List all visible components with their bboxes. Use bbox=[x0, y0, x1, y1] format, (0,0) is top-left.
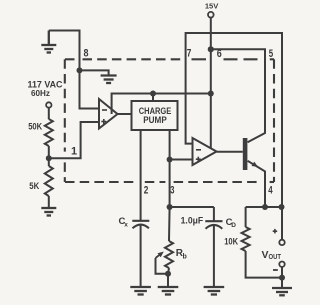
node 15V junction dot bbox=[208, 46, 214, 52]
wire: top-left ground to pin 8 node, down to op-amp inverting input bbox=[49, 31, 99, 109]
node pin 8 junction dot bbox=[77, 67, 83, 73]
wire: outer supply rail and comparator U2 inverting input bbox=[186, 33, 282, 207]
wire: node to ground bbox=[281, 278, 283, 288]
ground (near pin 8) bbox=[101, 76, 117, 84]
node charge-pump top junction dot bbox=[150, 91, 156, 97]
charge pump block bbox=[132, 101, 178, 130]
capacitor Cx bbox=[132, 220, 149, 222]
wire: 5K to ground bbox=[48, 196, 50, 208]
node pin 6 rail junction dot bbox=[208, 91, 214, 97]
svg-text:5: 5 bbox=[269, 48, 273, 60]
svg-text:5K: 5K bbox=[29, 181, 39, 192]
svg-text:7: 7 bbox=[187, 47, 192, 59]
wire: charge pump left lead down to Cx (pin 2) bbox=[140, 130, 142, 220]
node Rb bottom junction dot bbox=[165, 271, 171, 277]
resistor Rb (rheostat) bbox=[165, 241, 173, 268]
wire: stem into charge pump top bbox=[152, 94, 154, 102]
transistor Q1 base bar bbox=[243, 138, 248, 170]
svg-text:V: V bbox=[262, 249, 269, 261]
svg-text:15V: 15V bbox=[205, 2, 219, 11]
svg-text:2: 2 bbox=[144, 185, 149, 197]
transistor Q1 emitter to pin 4 bbox=[248, 161, 265, 207]
ground (Rb) bbox=[158, 287, 179, 295]
wire: pin 4 node rail bbox=[246, 206, 282, 208]
svg-text:50K: 50K bbox=[28, 122, 42, 133]
svg-text:1.0μF: 1.0μF bbox=[181, 216, 204, 226]
ground (below 5K) bbox=[41, 208, 56, 216]
svg-text:PUMP: PUMP bbox=[143, 115, 167, 126]
wire: op-amp output branch up and across to pin 6 rail bbox=[112, 94, 211, 115]
wire: terminal to 50K bbox=[48, 108, 50, 120]
node Vout ground junction dot bbox=[279, 275, 285, 281]
wire: 10K bottom to Vout minus node bbox=[246, 251, 282, 278]
ground (Cx) bbox=[130, 287, 151, 295]
terminal Vout plus bbox=[279, 240, 284, 245]
wire: pin 3 node to capacitor CD bbox=[170, 206, 214, 208]
capacitor CD 1.0uF bbox=[213, 207, 215, 221]
svg-text:60Hz: 60Hz bbox=[31, 88, 50, 98]
svg-text:6: 6 bbox=[217, 48, 222, 60]
Vout plus sign bbox=[273, 229, 278, 234]
resistor 50K bbox=[45, 119, 53, 146]
IC dashed box right border bbox=[273, 59, 275, 182]
svg-text:10K: 10K bbox=[224, 237, 238, 248]
resistor 10K bbox=[242, 227, 250, 251]
node U2 + input junction dot bbox=[167, 157, 173, 163]
wire: pin 3 node down to Rb bbox=[168, 207, 171, 241]
IC dashed box bottom border bbox=[65, 181, 274, 183]
wire: op-amp output to charge pump bbox=[118, 113, 132, 115]
ground (CD) bbox=[204, 287, 225, 295]
wire: charge pump right lead down to pin 3 node bbox=[169, 130, 171, 207]
resistor 5K bbox=[45, 166, 53, 196]
wire: pin-8 node to second ground bbox=[80, 70, 109, 75]
op-amp U1 input comparator bbox=[99, 99, 118, 129]
wire: 50K to 5K bbox=[48, 146, 50, 166]
svg-text:D: D bbox=[231, 222, 236, 229]
terminal Vout minus bbox=[279, 262, 284, 267]
Vout minus sign bbox=[273, 269, 278, 271]
terminal 15V supply bbox=[208, 12, 214, 18]
svg-text:8: 8 bbox=[84, 48, 89, 60]
svg-text:3: 3 bbox=[170, 184, 174, 196]
wire: Vout minus to ground node bbox=[281, 267, 283, 278]
wire: pin 3 lead to U2 non-inverting input bbox=[170, 159, 193, 161]
wire: rail to Vout plus terminal bbox=[281, 207, 283, 240]
wire: pin 1 to op-amp non-inverting input bbox=[49, 122, 99, 158]
transistor Q1 emitter arrow bbox=[252, 162, 259, 167]
op-amp U2 output comparator bbox=[193, 138, 217, 165]
wire: 15V down through pin 6 to comparator U2 bbox=[210, 18, 212, 149]
node supply-rail junction dot bbox=[279, 204, 285, 210]
rheostat Rb wiper arrow bbox=[156, 253, 162, 258]
ground (Vout) bbox=[272, 288, 292, 295]
IC dashed box left border bbox=[64, 59, 66, 182]
wire: node to 10K bbox=[245, 207, 247, 227]
wire: 15V node to collector rail (pin 5) bbox=[211, 49, 265, 142]
svg-text:x: x bbox=[124, 221, 128, 228]
node pin 3 junction dot bbox=[167, 204, 173, 210]
node 50K/5K junction dot (pin 1 node) bbox=[46, 155, 52, 161]
terminal 117 VAC input bbox=[46, 102, 51, 107]
wire: Rb bottom to ground bbox=[168, 268, 169, 287]
svg-text:1: 1 bbox=[71, 146, 77, 158]
svg-text:OUT: OUT bbox=[269, 254, 282, 261]
svg-text:4: 4 bbox=[268, 185, 273, 197]
svg-text:b: b bbox=[183, 254, 187, 261]
IC dashed box top border bbox=[65, 58, 274, 60]
wire: Rb wiper to bottom terminal bbox=[156, 258, 169, 274]
node emitter junction dot bbox=[262, 204, 268, 210]
ground (top left) bbox=[41, 31, 56, 53]
wire: U2 output to Q1 base bbox=[217, 151, 243, 153]
